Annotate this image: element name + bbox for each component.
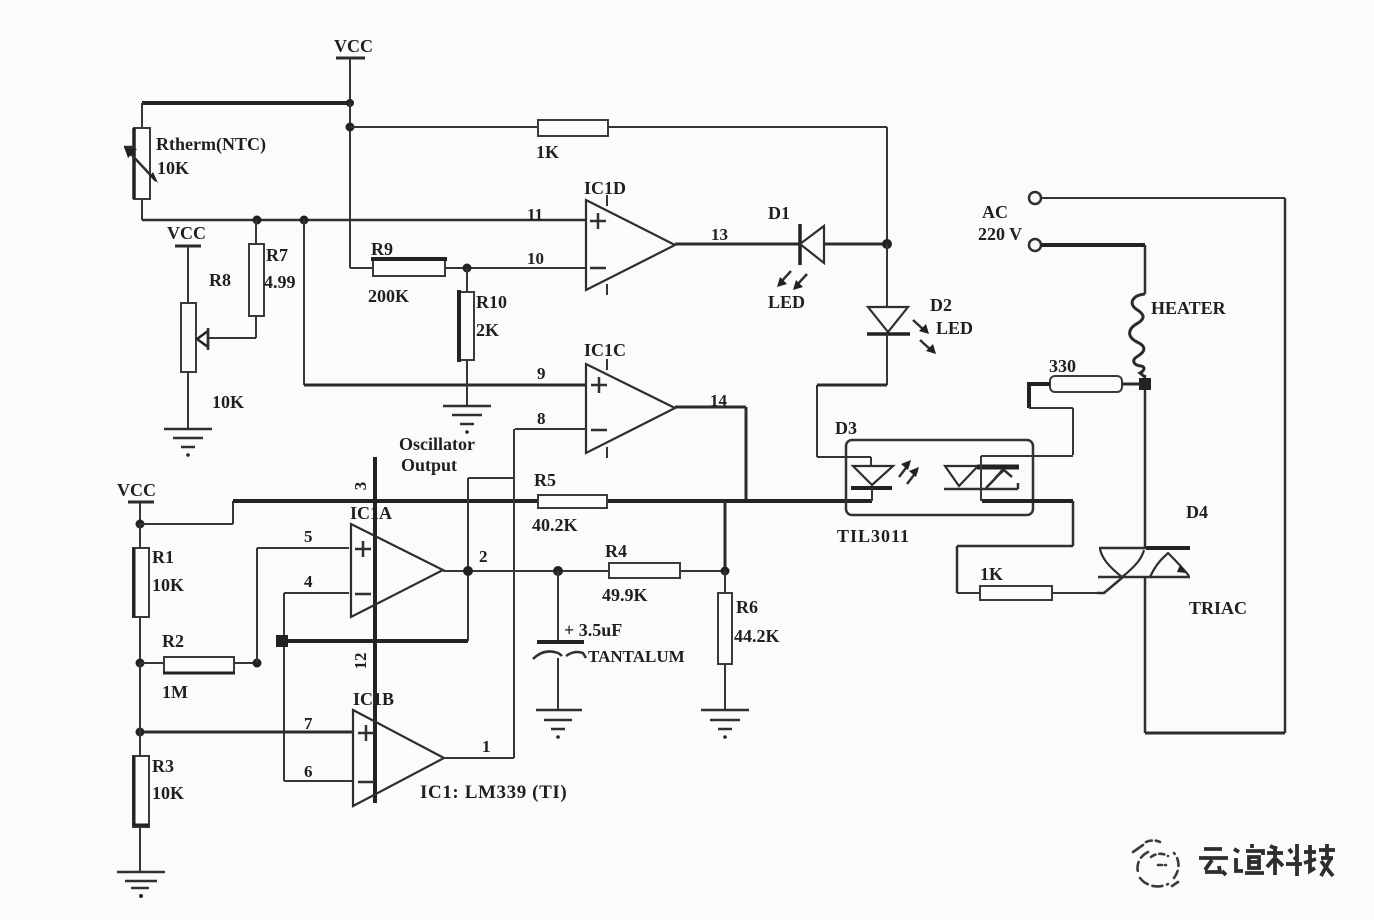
resistor R6 44.2K <box>718 571 780 664</box>
wire R2 node to R3 <box>139 663 141 756</box>
node junction VCC/R1 <box>136 520 145 529</box>
potentiometer R8 10K <box>181 270 256 412</box>
svg-text:LED: LED <box>768 292 805 312</box>
svg-text:AC: AC <box>982 202 1008 222</box>
svg-text:D2: D2 <box>930 295 952 315</box>
opto photo-triac (inside D3) <box>944 456 1019 501</box>
svg-text:40.2K: 40.2K <box>532 515 578 535</box>
svg-text:1K: 1K <box>536 142 559 162</box>
wire D1 to node <box>824 243 887 246</box>
wire pin 7 (thick) <box>140 731 353 734</box>
svg-text:IC1A: IC1A <box>350 503 392 523</box>
capacitor C1 3.5uF tantalum <box>533 571 685 710</box>
svg-text:11: 11 <box>527 205 543 224</box>
wire VCC rail (thick) <box>233 499 538 503</box>
svg-text:VCC: VCC <box>334 36 373 56</box>
wire opto cathode return (thick) <box>982 499 1073 503</box>
wire R1 to R2 node <box>139 617 141 663</box>
wire D2 to opto <box>817 334 887 457</box>
svg-text:HEATER: HEATER <box>1151 298 1227 318</box>
wire rail right of R5 <box>607 499 872 503</box>
resistor R4 49.9K <box>602 541 725 605</box>
node junction 330/heater square <box>1139 378 1151 390</box>
wire to 1K resistor <box>350 126 538 128</box>
resistor R3 10K <box>133 756 184 827</box>
wire bottom return <box>1145 732 1285 735</box>
power VCC (top) <box>334 36 373 103</box>
svg-text:R5: R5 <box>534 470 556 490</box>
svg-text:R6: R6 <box>736 597 758 617</box>
svg-text:10: 10 <box>527 249 544 268</box>
wire oscillator output net <box>468 429 514 758</box>
svg-text:R2: R2 <box>162 631 184 651</box>
ground (R3) <box>117 872 165 898</box>
wire thermistor node to pin 11 <box>142 219 586 222</box>
wire pull-up vertical <box>886 127 888 244</box>
source AC 220V <box>978 192 1041 251</box>
optocoupler D3 TIL3011 <box>835 418 1033 546</box>
wire pin 9 (IC1C +) <box>304 384 586 387</box>
wire pin 4 <box>284 593 353 781</box>
op-amp IC1D <box>584 178 675 295</box>
heater coil <box>1130 294 1227 377</box>
wire opto to 1K <box>957 501 1073 593</box>
wire IC1C output 14 <box>675 407 746 501</box>
node junction R2 right <box>253 659 262 668</box>
svg-text:R1: R1 <box>152 547 174 567</box>
op-amp IC1B <box>353 689 444 806</box>
LED D1 <box>768 203 824 312</box>
wire IC1 pin3/12 power line <box>351 457 375 803</box>
light arrows (opto) <box>899 460 919 484</box>
svg-text:IC1D: IC1D <box>584 178 626 198</box>
svg-text:IC1C: IC1C <box>584 340 626 360</box>
svg-text:9: 9 <box>537 364 546 383</box>
svg-text:4.99: 4.99 <box>264 272 296 292</box>
svg-text:5: 5 <box>304 527 313 546</box>
node junction R2 left <box>136 659 145 668</box>
svg-text:Output: Output <box>401 455 457 475</box>
wire VCC to thermistor top <box>142 101 350 105</box>
svg-text:D3: D3 <box>835 418 857 438</box>
svg-text:2K: 2K <box>476 320 499 340</box>
svg-text:R3: R3 <box>152 756 174 776</box>
resistor 1K (gate) <box>957 564 1097 600</box>
svg-text:12: 12 <box>351 653 370 670</box>
svg-text:LED: LED <box>936 318 973 338</box>
node junction R4/R6 <box>721 567 730 576</box>
wire VCC vertical to R9 <box>349 103 351 268</box>
wire pot to ground <box>187 372 189 429</box>
node junction R7 <box>253 216 262 225</box>
svg-text:10K: 10K <box>152 783 184 803</box>
svg-text:10K: 10K <box>212 392 244 412</box>
wire VCC jog to rail <box>140 501 233 524</box>
node junction D1/D2 <box>882 239 892 249</box>
node junction pin9 branch <box>300 216 309 225</box>
svg-text:4: 4 <box>304 572 313 591</box>
svg-text:14: 14 <box>710 391 728 410</box>
svg-text:6: 6 <box>304 762 313 781</box>
resistor R2 1M <box>140 631 257 702</box>
wire R10 to ground <box>466 360 468 406</box>
op-amp IC1A <box>350 503 443 617</box>
svg-text:IC1: LM339 (TI): IC1: LM339 (TI) <box>420 782 567 803</box>
wire right rail vertical <box>1284 198 1287 733</box>
node junction output 2 <box>463 566 473 576</box>
svg-text:7: 7 <box>304 714 313 733</box>
svg-text:+ 3.5uF: + 3.5uF <box>564 620 622 640</box>
resistor R5 40.2K <box>532 470 607 535</box>
node junction feedback square <box>276 635 288 647</box>
wire pin 9 branch vertical <box>303 220 305 385</box>
svg-text:1: 1 <box>482 737 491 756</box>
ground (C1) <box>536 710 582 739</box>
svg-text:R7: R7 <box>266 245 288 265</box>
svg-text:D4: D4 <box>1186 502 1208 522</box>
resistor R9 200K <box>350 239 447 306</box>
svg-text:TANTALUM: TANTALUM <box>588 647 685 666</box>
wire R5/node to R4 junction <box>724 501 727 571</box>
svg-text:Oscillator: Oscillator <box>399 434 475 454</box>
resistor R7 4.99 <box>249 220 296 316</box>
wire IC1A output 2 <box>443 570 609 572</box>
svg-text:1K: 1K <box>980 564 1003 584</box>
svg-text:R8: R8 <box>209 270 231 290</box>
svg-text:IC1B: IC1B <box>353 689 394 709</box>
wire triac to bottom <box>1144 578 1147 733</box>
LED D2 <box>867 295 973 354</box>
svg-text:R4: R4 <box>605 541 627 561</box>
node junction VCC/top <box>346 99 354 107</box>
svg-text:330: 330 <box>1049 356 1076 376</box>
wire 330 to opto triac top <box>981 384 1073 456</box>
wire pin 8 <box>515 428 586 430</box>
svg-text:8: 8 <box>537 409 546 428</box>
svg-text:VCC: VCC <box>117 480 156 500</box>
svg-text:R10: R10 <box>476 292 507 312</box>
ground (R10) <box>443 406 491 434</box>
resistor 330 <box>1049 356 1141 392</box>
svg-text:TIL3011: TIL3011 <box>837 526 910 546</box>
power VCC (left rail) <box>117 480 156 524</box>
wire feedback (thick) <box>281 639 468 643</box>
wire IC1D output 13 <box>675 243 800 246</box>
svg-text:200K: 200K <box>368 286 409 306</box>
node Oscillator Output label <box>399 434 475 475</box>
node junction 1K branch <box>346 123 355 132</box>
svg-text:2: 2 <box>479 547 488 566</box>
svg-text:R9: R9 <box>371 239 393 259</box>
node junction R10 <box>463 264 472 273</box>
power VCC (pot) <box>167 223 206 303</box>
resistor 1K <box>536 120 608 162</box>
resistor R1 10K <box>133 524 184 617</box>
svg-text:44.2K: 44.2K <box>734 626 780 646</box>
triac D4 <box>1098 502 1247 618</box>
svg-text:10K: 10K <box>152 575 184 595</box>
wire R9 to pin 10 <box>445 267 586 269</box>
resistor R10 2K <box>459 268 507 362</box>
wire gate diagonal <box>1097 577 1123 593</box>
ground (pot) <box>164 429 212 457</box>
wire node to D2 <box>886 244 888 307</box>
wire 1K to D1 pull-up node <box>608 126 887 128</box>
wire R6 to ground <box>724 664 726 710</box>
node junction pin7 <box>136 728 145 737</box>
wire AC top to right rail <box>1041 197 1285 199</box>
svg-text:49.9K: 49.9K <box>602 585 648 605</box>
wire heater to junction <box>1144 375 1147 548</box>
svg-text:3: 3 <box>351 482 370 491</box>
svg-text:10K: 10K <box>157 158 189 178</box>
logo text 云谊科技 <box>1199 844 1335 876</box>
svg-text:TRIAC: TRIAC <box>1189 598 1247 618</box>
svg-text:1M: 1M <box>162 682 188 702</box>
ground (R6) <box>701 710 749 739</box>
svg-text:D1: D1 <box>768 203 790 223</box>
svg-text:VCC: VCC <box>167 223 206 243</box>
wire AC bottom to heater <box>1041 245 1145 294</box>
wire R3 to ground <box>139 827 141 872</box>
wire IC1B output 1 <box>444 757 514 759</box>
opto LED (inside D3) <box>817 457 893 501</box>
op-amp IC1C <box>584 340 675 458</box>
logo icon (sketch globe) <box>1133 841 1179 887</box>
svg-text:13: 13 <box>711 225 728 244</box>
svg-text:Rtherm(NTC): Rtherm(NTC) <box>156 134 266 155</box>
node junction cap branch <box>553 566 563 576</box>
svg-text:220 V: 220 V <box>978 224 1022 244</box>
wire R2 to pin 5 <box>257 548 349 663</box>
thermistor Rtherm(NTC) 10K <box>124 103 266 220</box>
